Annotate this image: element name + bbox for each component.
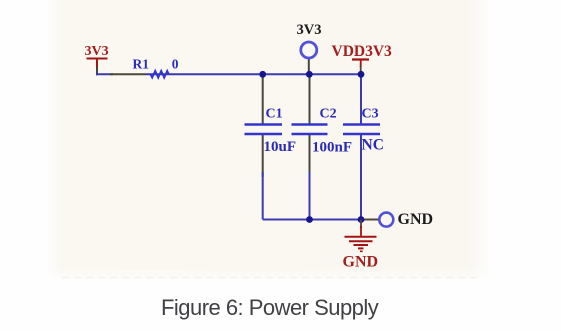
svg-text:NC: NC: [362, 137, 384, 154]
svg-text:GND: GND: [398, 211, 434, 228]
svg-text:0: 0: [172, 57, 179, 72]
svg-text:VDD3V3: VDD3V3: [332, 43, 393, 60]
svg-text:C2: C2: [320, 107, 337, 122]
svg-text:100nF: 100nF: [312, 140, 352, 156]
svg-text:C1: C1: [266, 107, 283, 122]
svg-text:3V3: 3V3: [85, 44, 109, 59]
svg-text:GND: GND: [343, 254, 379, 271]
svg-text:10uF: 10uF: [264, 139, 297, 155]
svg-text:R1: R1: [133, 57, 150, 72]
svg-text:3V3: 3V3: [297, 22, 322, 38]
svg-text:C3: C3: [362, 107, 379, 122]
